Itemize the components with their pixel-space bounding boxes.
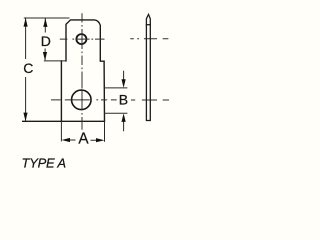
svg-text:B: B [119, 92, 128, 108]
big hole [72, 90, 92, 110]
dimension D [44, 19, 66, 61]
svg-text:TYPE A: TYPE A [22, 155, 66, 170]
dimension B [104, 71, 127, 131]
horizontal centerline through small hole (front + side view) [60, 38, 169, 40]
svg-text:D: D [41, 33, 51, 49]
small hole [76, 34, 86, 44]
front view tab/body outline [23, 20, 105, 121]
dimension C [24, 18, 70, 121]
svg-text:C: C [23, 60, 33, 76]
side view [146, 14, 150, 120]
horizontal centerline through big hole (front + side view) [51, 99, 169, 101]
dimension A [61, 121, 104, 141]
vertical centerline [81, 13, 83, 130]
svg-text:A: A [78, 131, 89, 148]
caption [22, 155, 66, 170]
